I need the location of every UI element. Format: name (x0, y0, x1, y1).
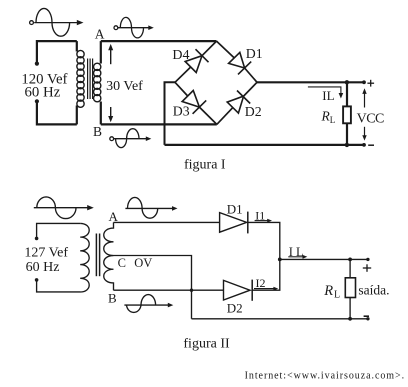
svg-text:IL: IL (322, 88, 334, 103)
svg-text:C: C (118, 256, 126, 270)
svg-text:A: A (109, 209, 119, 224)
svg-text:RL: RL (323, 283, 340, 301)
svg-text:Internet:<www.ivairsouza.com>.: Internet:<www.ivairsouza.com>. (245, 370, 405, 381)
svg-text:60 Hz: 60 Hz (25, 85, 61, 101)
svg-text:D1: D1 (246, 46, 263, 61)
svg-text:VCC: VCC (357, 111, 384, 126)
svg-text:D4: D4 (172, 48, 189, 63)
svg-text:A: A (95, 27, 105, 42)
svg-text:D3: D3 (173, 104, 190, 119)
svg-text:B: B (108, 291, 117, 306)
svg-text:30 Vef: 30 Vef (106, 79, 143, 94)
svg-text:IL: IL (289, 245, 307, 259)
svg-text:OV: OV (134, 256, 152, 270)
svg-text:D2: D2 (227, 300, 243, 315)
svg-text:B: B (93, 124, 102, 139)
svg-text:D2: D2 (245, 104, 262, 119)
svg-text:saída.: saída. (358, 283, 389, 298)
svg-text:60 Hz: 60 Hz (26, 260, 60, 275)
svg-text:figura I: figura I (184, 157, 226, 172)
svg-text:D1: D1 (227, 202, 243, 217)
svg-text:RL: RL (321, 109, 336, 126)
svg-text:I1: I1 (255, 209, 265, 223)
svg-text:127 Vef: 127 Vef (24, 246, 68, 261)
svg-text:figura II: figura II (183, 336, 230, 351)
svg-text:I2: I2 (256, 276, 266, 290)
